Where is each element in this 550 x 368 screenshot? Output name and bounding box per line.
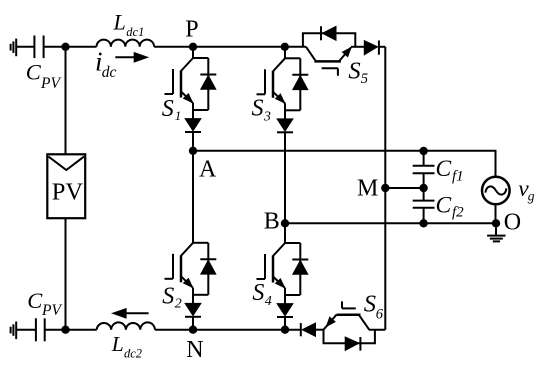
svg-text:A: A	[199, 156, 217, 182]
arrow i_dc (points right)	[115, 53, 148, 62]
emitter arrowhead	[343, 48, 352, 57]
wire series diode to node A	[192, 132, 194, 151]
node B	[281, 219, 289, 227]
svg-text:N: N	[186, 337, 203, 363]
right vertical bus S5 to S6	[384, 47, 386, 330]
node P	[189, 43, 197, 51]
svg-text:4: 4	[265, 294, 272, 309]
wire M to capacitor midpoint	[385, 187, 423, 189]
svg-text:PV: PV	[41, 302, 62, 319]
wire node A line to vg corner	[193, 151, 496, 177]
body bar	[180, 71, 183, 98]
antiparallel diode D6 (points right)	[345, 337, 359, 350]
svg-text:P: P	[185, 17, 198, 43]
body bar	[314, 60, 341, 63]
antiparallel diode D5 (points left)	[320, 26, 322, 40]
svg-text:S: S	[252, 95, 264, 121]
svg-text:g: g	[528, 189, 535, 204]
svg-text:6: 6	[376, 307, 384, 323]
left column: wire top junction to PV	[65, 47, 67, 155]
IGBT S1	[165, 58, 217, 132]
gate	[172, 69, 174, 94]
gate	[172, 254, 174, 279]
wire A to S2	[192, 151, 194, 243]
gate	[264, 254, 266, 279]
svg-text:3: 3	[263, 110, 271, 125]
wire S2 to N rail	[192, 317, 194, 330]
wire ground to capacitor CPV bottom	[17, 329, 36, 331]
wire emitter down	[284, 103, 286, 119]
svg-text:C: C	[27, 288, 43, 313]
wire capacitor to inductor Ldc1	[44, 46, 97, 48]
IGBT S4	[257, 243, 309, 317]
svg-text:C: C	[26, 59, 42, 84]
svg-text:1: 1	[175, 108, 182, 123]
node bottom-left junction	[61, 326, 69, 334]
IGBT S5 (horizontal, top right)	[303, 26, 385, 76]
node A	[189, 147, 197, 155]
wire S4 to N rail	[284, 317, 286, 330]
series diode leg1 upper	[185, 119, 201, 131]
wire capacitor to inductor Ldc2	[45, 329, 97, 331]
series diode before S6 (points left)	[300, 323, 302, 336]
antiparallel diode D4	[292, 259, 308, 261]
wire leg S1 emitter down	[192, 103, 194, 119]
ground at O	[487, 228, 505, 242]
wire to bus corner	[379, 46, 385, 48]
ground (sideways) bottom-left	[11, 322, 17, 340]
svg-text:5: 5	[361, 71, 368, 87]
svg-text:PV: PV	[40, 75, 61, 92]
node N	[189, 326, 197, 334]
emitter diagonal	[324, 315, 337, 330]
svg-text:O: O	[504, 210, 521, 236]
svg-text:B: B	[264, 209, 280, 235]
wire PV to bottom junction	[65, 218, 67, 330]
PV module	[47, 154, 85, 218]
capacitor Cf2	[413, 201, 435, 208]
svg-text:PV: PV	[52, 179, 84, 206]
collector diagonal	[181, 58, 193, 71]
collector top branch	[193, 57, 208, 59]
node cap bottom	[419, 219, 427, 227]
series diode leg2 lower	[277, 304, 293, 316]
gate	[341, 301, 343, 308]
capacitor CPV (bottom input)	[36, 318, 45, 341]
wire node B line to O	[285, 222, 496, 224]
collector diagonal	[359, 315, 369, 330]
node leg2 top junction	[281, 43, 289, 51]
svg-text:dc1: dc1	[126, 25, 144, 39]
svg-text:L: L	[113, 10, 126, 35]
svg-text:C: C	[436, 192, 452, 218]
antiparallel diode D3	[292, 74, 308, 76]
series diode after S5 (points right)	[364, 41, 377, 55]
arrow above Ldc2 (points left)	[113, 309, 149, 318]
svg-text:dc: dc	[102, 64, 117, 81]
node O	[492, 219, 500, 227]
antiparallel diode D2	[200, 258, 216, 260]
node cap mid	[419, 184, 427, 192]
capacitor CPV (top input)	[34, 36, 43, 59]
antiparallel branch wire	[303, 33, 355, 47]
IGBT S2	[165, 243, 217, 317]
gate	[264, 69, 266, 94]
node cap top	[419, 147, 427, 155]
wire B to S4	[284, 223, 286, 243]
wire emitter down	[284, 288, 286, 304]
wire leg2 top to S3	[284, 47, 286, 59]
emitter arrowhead	[327, 317, 336, 326]
wire emitter to series diode	[351, 46, 364, 48]
wire collector to bus corner	[369, 329, 385, 331]
emitter arrowhead	[184, 94, 193, 103]
series diode leg2 upper	[277, 119, 293, 131]
svg-text:f2: f2	[452, 205, 464, 221]
emitter diagonal	[339, 47, 351, 61]
emitter bottom branch	[193, 109, 208, 111]
capacitor branch verticals	[423, 151, 425, 166]
wire Ldc1 to P and to S5 branch	[154, 46, 306, 48]
svg-text:f1: f1	[452, 169, 464, 185]
svg-text:dc2: dc2	[124, 347, 142, 361]
node top-left junction	[61, 43, 69, 51]
node S4-N junction	[281, 326, 289, 334]
inductor Ldc1	[97, 40, 155, 47]
wire emitter down	[192, 288, 194, 304]
svg-text:S: S	[252, 280, 264, 306]
wire leg1 P to S1	[192, 47, 194, 58]
wire S3 to node B	[284, 132, 286, 223]
series diode leg1 lower	[185, 303, 201, 315]
svg-text:L: L	[111, 332, 124, 356]
svg-text:M: M	[357, 176, 378, 202]
svg-text:C: C	[436, 156, 452, 182]
inductor Ldc2	[97, 322, 155, 329]
antiparallel branch wire	[324, 330, 375, 344]
antiparallel diode branch wire	[207, 58, 209, 110]
capacitor Cf1	[413, 166, 435, 173]
collector diagonal	[306, 47, 316, 62]
svg-text:S: S	[348, 57, 360, 84]
IGBT S6 (horizontal, bottom right)	[301, 301, 386, 350]
IGBT S3	[257, 58, 309, 132]
antiparallel diode D1	[200, 74, 216, 76]
emitter diagonal	[181, 92, 193, 104]
svg-text:S: S	[364, 291, 376, 318]
wire diode to emitter split	[316, 329, 324, 331]
AC source vg	[482, 177, 510, 224]
body bar	[337, 313, 361, 316]
wire ground to capacitor CPV top	[17, 46, 34, 48]
node M	[381, 184, 389, 192]
ground (sideways) top-left	[11, 39, 17, 57]
gate	[322, 67, 338, 69]
wire Ldc2 to N and S4 junction	[155, 329, 301, 331]
svg-text:S: S	[162, 96, 174, 122]
svg-text:S: S	[162, 283, 174, 309]
svg-text:2: 2	[175, 297, 182, 312]
